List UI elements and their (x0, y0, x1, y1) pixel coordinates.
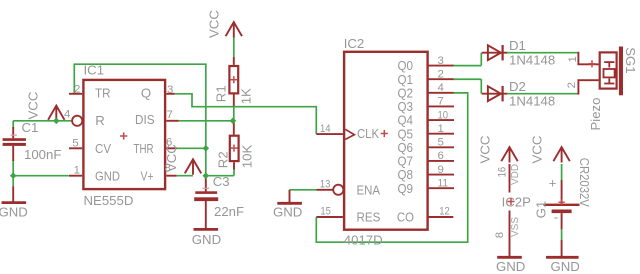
svg-text:C1: C1 (22, 120, 39, 135)
svg-text:3: 3 (438, 55, 444, 67)
svg-text:GND: GND (95, 169, 120, 184)
svg-text:C3: C3 (213, 174, 230, 189)
svg-text:1N4148: 1N4148 (509, 94, 555, 109)
svg-text:RES: RES (357, 210, 381, 225)
svg-text:3: 3 (167, 84, 173, 96)
svg-text:VCC: VCC (530, 135, 545, 163)
svg-text:+: + (549, 176, 557, 191)
svg-text:SG1: SG1 (623, 47, 638, 73)
svg-text:D1: D1 (509, 38, 526, 53)
svg-text:100nF: 100nF (24, 147, 61, 162)
svg-text:4: 4 (64, 108, 70, 120)
svg-text:7: 7 (167, 109, 173, 121)
svg-text:Q9: Q9 (398, 181, 414, 196)
svg-text:12: 12 (439, 205, 450, 217)
svg-text:GND: GND (551, 259, 580, 274)
svg-text:1: 1 (74, 165, 80, 177)
svg-text:Q: Q (141, 86, 151, 101)
svg-text:11: 11 (438, 177, 449, 189)
svg-text:GND: GND (192, 232, 221, 247)
svg-text:GND: GND (0, 204, 28, 219)
svg-text:CV: CV (95, 141, 111, 156)
svg-text:7: 7 (438, 96, 444, 108)
svg-text:VCC: VCC (207, 10, 222, 38)
svg-text:THR: THR (134, 141, 154, 156)
svg-text:G1: G1 (533, 201, 548, 219)
svg-text:-: - (554, 210, 558, 225)
svg-text:5: 5 (72, 137, 78, 149)
svg-text:2: 2 (566, 82, 578, 88)
svg-text:9: 9 (438, 164, 444, 176)
svg-text:5: 5 (438, 137, 444, 149)
svg-text:2: 2 (74, 84, 80, 96)
svg-text:8: 8 (494, 232, 506, 238)
svg-text:IC2: IC2 (344, 36, 365, 51)
svg-text:10K: 10K (239, 145, 254, 169)
svg-text:16: 16 (497, 167, 509, 178)
svg-text:6: 6 (438, 150, 444, 162)
svg-text:1: 1 (567, 56, 579, 62)
svg-text:GND: GND (496, 259, 525, 274)
svg-text:R1: R1 (213, 85, 228, 102)
svg-text:Piezo: Piezo (588, 98, 603, 131)
svg-text:ENA: ENA (357, 182, 381, 197)
svg-text:VCC: VCC (26, 91, 41, 119)
svg-text:GND: GND (273, 205, 302, 220)
svg-text:CLK: CLK (357, 126, 379, 141)
svg-text:IC2P: IC2P (502, 195, 532, 210)
svg-text:1K: 1K (239, 88, 254, 104)
svg-text:15: 15 (320, 205, 331, 217)
svg-text:14: 14 (320, 123, 331, 135)
svg-text:1N4148: 1N4148 (509, 53, 555, 68)
svg-text:13: 13 (320, 178, 331, 190)
svg-text:VDD: VDD (510, 164, 521, 185)
svg-text:4017D: 4017D (344, 233, 383, 248)
svg-text:10: 10 (438, 109, 449, 121)
svg-text:VCC: VCC (164, 144, 179, 172)
svg-text:CR2032V: CR2032V (577, 158, 592, 207)
svg-text:VSS: VSS (510, 217, 521, 237)
svg-text:TR: TR (95, 85, 111, 100)
svg-text:D2: D2 (509, 79, 526, 94)
svg-text:R: R (95, 113, 105, 128)
svg-text:NE555D: NE555D (84, 193, 134, 208)
svg-text:CO: CO (397, 210, 414, 225)
svg-text:DIS: DIS (135, 112, 155, 127)
svg-text:R2: R2 (215, 151, 230, 168)
svg-text:2: 2 (438, 68, 444, 80)
svg-text:22nF: 22nF (214, 204, 244, 219)
svg-text:4: 4 (438, 82, 444, 94)
svg-text:1: 1 (438, 123, 444, 135)
svg-text:V+: V+ (141, 169, 154, 184)
svg-text:IC1: IC1 (84, 63, 105, 78)
svg-text:VCC: VCC (478, 135, 493, 163)
